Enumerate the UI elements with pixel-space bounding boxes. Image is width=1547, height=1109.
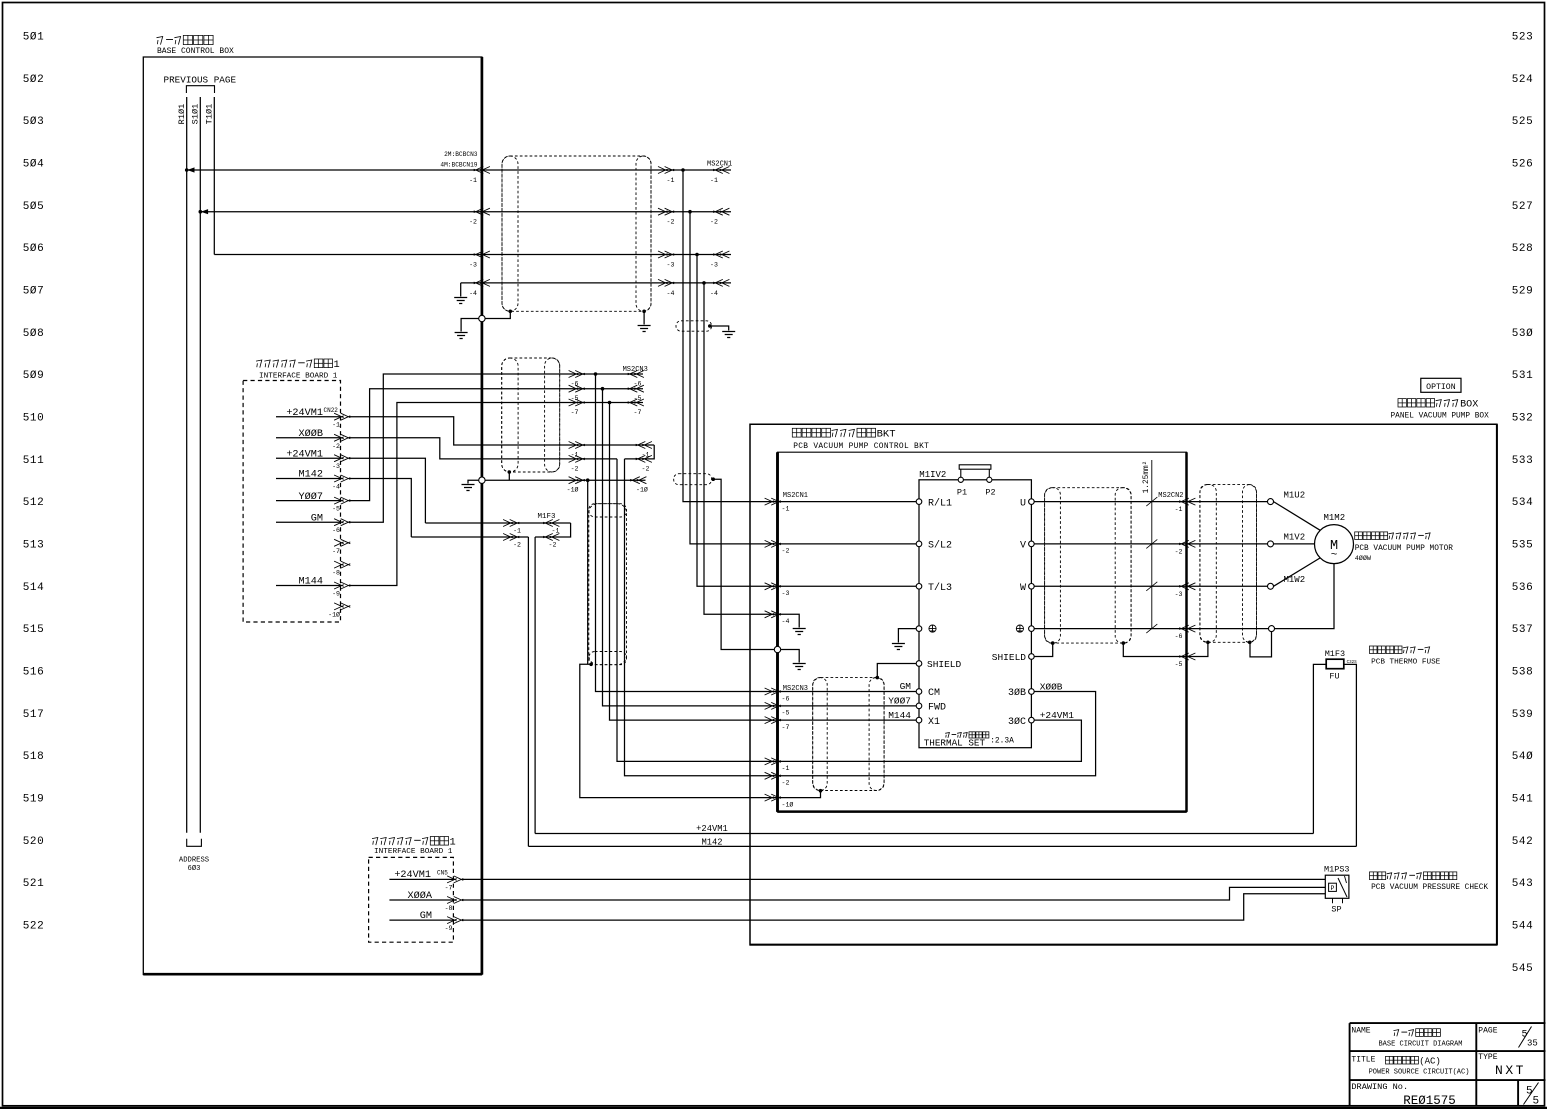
svg-text:T1Ø1: T1Ø1 (205, 104, 215, 125)
wire FWD row with label Y007 (778, 705, 917, 707)
svg-text:FWD: FWD (928, 703, 946, 714)
svg-text:-1: -1 (782, 765, 790, 772)
svg-text:529: 529 (1512, 285, 1534, 297)
svg-text:525: 525 (1512, 116, 1534, 128)
svg-text:BOX: BOX (1460, 400, 1478, 411)
wire V to MS2CN2-2 (1034, 543, 1186, 545)
svg-text:YØØ7: YØØ7 (299, 491, 323, 503)
svg-text:M142: M142 (701, 837, 722, 847)
svg-text:M1PS3: M1PS3 (1324, 865, 1350, 875)
svg-text:M1IV2: M1IV2 (919, 470, 946, 480)
svg-text:+24VM1: +24VM1 (1040, 710, 1075, 721)
svg-text:THERMAL SET: THERMAL SET (924, 738, 986, 749)
svg-text:-1Ø: -1Ø (636, 486, 648, 494)
wire 30C +24VM1 to MS2CN3-1 (778, 720, 1082, 761)
svg-text:-4: -4 (710, 290, 718, 297)
connector CN22 pin -3 +24VM1 (276, 457, 341, 459)
inverter pin 30B (1029, 689, 1035, 695)
svg-text:-3: -3 (1175, 591, 1183, 598)
svg-text:S/L2: S/L2 (928, 540, 952, 552)
svg-text:TITLE: TITLE (1351, 1056, 1375, 1065)
svg-text:-2: -2 (571, 465, 579, 472)
label PCB VACUUM PUMP CONTROL BKT (Japanese) (792, 428, 801, 437)
svg-text:518: 518 (23, 751, 45, 763)
wire CM row with label GM (778, 691, 917, 693)
ground G8 (892, 644, 905, 650)
wire MS2CN1-3 to inverter T/L3 (778, 585, 917, 587)
connector arrows cable out pins -1..-4 (658, 167, 674, 174)
wire bundle v4 to control bkt MS2CN3-1 (617, 459, 778, 762)
label PCB VACUUM PUMP MOTOR (Japanese) (1355, 532, 1363, 540)
ground G1 on row -4 (460, 283, 462, 297)
svg-text:~: ~ (1331, 550, 1338, 562)
bracket ADDRESS 603 (187, 839, 202, 847)
wire X1 row with label M144 (778, 719, 917, 721)
svg-text:528: 528 (1512, 243, 1534, 255)
svg-text:PCB THERMO FUSE: PCB THERMO FUSE (1371, 659, 1441, 667)
svg-text:4ØØW: 4ØØW (1355, 554, 1372, 563)
wire MS2CN1-4 to ground G6 (778, 614, 800, 627)
inverter pin earth left (916, 626, 922, 632)
svg-text:-1: -1 (571, 452, 579, 459)
svg-text:-2: -2 (642, 465, 650, 472)
svg-text:-2: -2 (513, 542, 521, 549)
wire W to MS2CN2-3 (1034, 585, 1186, 587)
svg-text:510: 510 (23, 412, 45, 424)
svg-text:M1M2: M1M2 (1324, 513, 1346, 523)
pressure switch legs and SP label (1332, 898, 1334, 903)
jumper P1-P2 (961, 469, 990, 480)
ground G2 (455, 333, 468, 339)
svg-text:M144: M144 (888, 710, 911, 721)
svg-text:-1Ø: -1Ø (328, 610, 340, 618)
connector CN22 pin -1 +24VM1 (276, 416, 341, 418)
shield dot inner cable right (1122, 641, 1126, 645)
svg-text:P: P (1331, 885, 1335, 892)
connector CN22 pin -9 M144 (276, 585, 341, 587)
svg-text:-8: -8 (332, 570, 340, 577)
wire CN22-5 to MS2CN3 row -5 (349, 389, 643, 501)
svg-text:-8: -8 (445, 905, 453, 912)
connector CN22 pin -6 GM (276, 521, 341, 523)
shield dot bundle cable (589, 663, 593, 667)
wire bundle v2 Y007 to control bkt FWD (603, 389, 778, 706)
svg-text:CM: CM (928, 688, 940, 699)
wire bundle v5 to control bkt MS2CN3-2 (625, 459, 778, 776)
label PANEL VACUUM PUMP BOX (Japanese) (1398, 399, 1406, 408)
svg-text:536: 536 (1512, 582, 1534, 594)
wire terminal to ground G2 (461, 319, 479, 332)
motor M1M2 circle (1315, 525, 1354, 564)
wire CN22-3 to M1F3 row -1 (349, 458, 425, 523)
connector CN5 pin -7 +24VM1 (389, 878, 455, 880)
svg-text:X1: X1 (928, 717, 940, 728)
svg-text:514: 514 (23, 582, 45, 594)
wire bus vertical 3 to MS2CN1-3 of control bkt (697, 255, 778, 587)
shield dot inner cable left (1051, 641, 1055, 645)
svg-text:-3: -3 (469, 262, 477, 269)
svg-text:-1Ø: -1Ø (567, 486, 579, 494)
shield dot motor cable left (1206, 641, 1210, 645)
svg-text:-1: -1 (667, 177, 675, 184)
wire shield drain to control bkt MS2CN3-10 (580, 664, 778, 797)
wire MS2CN1-2 to inverter S/L2 (778, 543, 917, 545)
svg-text:-2: -2 (782, 780, 790, 787)
svg-text:5Ø3: 5Ø3 (23, 116, 45, 128)
wire motor frame to cable shield (1250, 632, 1272, 657)
wire earth right to MS2CN2-6 (1034, 628, 1186, 630)
cable shield dashed pair near base box edge (502, 358, 560, 472)
svg-text:YØØ7: YØØ7 (888, 696, 911, 707)
wire bus vertical 1 to MS2CN1-1 of control bkt (683, 170, 778, 502)
cable shield sleeve on bus lower (674, 474, 712, 485)
svg-text:FU: FU (1329, 672, 1339, 682)
svg-text:-6: -6 (332, 527, 340, 534)
junction dots MS2CN3 bundle (594, 372, 598, 376)
svg-text:U: U (1020, 498, 1026, 509)
svg-text:CN5: CN5 (437, 870, 448, 877)
svg-text:-7: -7 (782, 724, 790, 731)
svg-text:PREVIOUS PAGE: PREVIOUS PAGE (164, 74, 237, 85)
shield dot top (876, 676, 880, 680)
svg-text:P2: P2 (985, 488, 995, 498)
svg-text:5Ø2: 5Ø2 (23, 74, 45, 86)
wire jumper MS2CN3 -1 to -2 (625, 445, 655, 459)
svg-text:M1W2: M1W2 (1284, 575, 1306, 585)
svg-text:-2: -2 (332, 443, 340, 450)
svg-text:-7: -7 (634, 409, 642, 416)
wire MS2CN2-3 to M1W2 terminal (1187, 585, 1268, 587)
title block frame (1350, 1023, 1546, 1106)
svg-text:XØØB: XØØB (299, 428, 323, 440)
wire drain to ground G3 (643, 311, 645, 324)
wire SHIELD right to inner cable shield (1034, 643, 1053, 656)
svg-text:+24VM1: +24VM1 (286, 449, 323, 460)
inverter pin X1 (916, 717, 922, 723)
svg-text:515: 515 (23, 624, 45, 636)
wire MS2CN2-6 to motor frame terminal (1187, 628, 1269, 630)
junction S101 row -2 with arrowhead (199, 210, 203, 214)
wire row -10 to shield dot (778, 791, 821, 798)
inverter pin SHIELD left (916, 661, 922, 667)
wire CN22-9 to MS2CN3 row -7 (349, 403, 643, 586)
svg-text:5Ø7: 5Ø7 (23, 285, 45, 297)
wire +24VM1 drop vertical (534, 537, 536, 834)
svg-text:TYPE: TYPE (1478, 1053, 1497, 1062)
wire row -10 to MS2CN3 (485, 479, 645, 481)
svg-text:-4: -4 (332, 484, 340, 491)
svg-text:2M:BCBCN3: 2M:BCBCN3 (444, 151, 478, 158)
inverter pin earth right (1029, 626, 1035, 632)
svg-text:P1: P1 (957, 488, 967, 498)
svg-text:-3: -3 (332, 463, 340, 470)
wire R101 vertical (186, 97, 188, 833)
svg-text:-2: -2 (667, 219, 675, 226)
ground G6 (793, 629, 806, 635)
svg-text:NAME: NAME (1351, 1027, 1370, 1036)
wire sleeve shield to control bkt terminal circle (713, 479, 774, 649)
inverter pin 30C (1029, 717, 1035, 723)
svg-text:5Ø1: 5Ø1 (23, 32, 45, 44)
svg-text:-2: -2 (1175, 548, 1183, 555)
terminal circle on base box edge row 508 (479, 315, 485, 321)
svg-text:(AC): (AC) (1419, 1056, 1441, 1067)
wire shield drain to terminal circle (485, 311, 510, 318)
svg-text:544: 544 (1512, 920, 1534, 932)
shield drain dot left tube (509, 310, 513, 314)
board INTERFACE BOARD 1 upper dashed box (243, 381, 340, 623)
svg-text:537: 537 (1512, 624, 1534, 636)
wire CN22-1 to MS2CN3 row -1 (349, 417, 654, 445)
wire M1U2 to motor (1274, 502, 1321, 531)
svg-text:5Ø5: 5Ø5 (23, 201, 45, 213)
wire MS2CN1-1 to inverter R/L1 (778, 501, 917, 503)
terminal circle control bkt left edge (774, 646, 780, 652)
label OPTION box (1421, 378, 1461, 392)
ground G3 (638, 326, 651, 332)
svg-text:-9: -9 (445, 925, 453, 932)
svg-text:SHIELD: SHIELD (927, 659, 962, 670)
svg-text:+24VM1: +24VM1 (696, 824, 728, 834)
box PCB VACUUM PUMP CONTROL BKT (778, 452, 1187, 812)
svg-text:POWER SOURCE CIRCUIT(AC): POWER SOURCE CIRCUIT(AC) (1369, 1068, 1470, 1076)
connector MS2CN1 pins -1..-4 (713, 167, 729, 174)
box BASE CONTROL BOX (143, 57, 482, 975)
inverter pin SHIELD right (1029, 654, 1035, 660)
svg-text:-4: -4 (667, 290, 675, 297)
svg-text:520: 520 (23, 836, 45, 848)
svg-text:PCB VACUUM PUMP CONTROL BKT: PCB VACUUM PUMP CONTROL BKT (793, 442, 929, 451)
svg-text:-7: -7 (332, 548, 340, 555)
label INTERFACE BOARD 1 lower (Japanese) (372, 838, 378, 846)
svg-text:1: 1 (334, 359, 340, 371)
svg-text:SP: SP (1331, 905, 1341, 915)
inverter M1IV2 box (919, 480, 1031, 748)
wire bundle v3 M144 to control bkt X1 (610, 403, 778, 721)
pressure switch symbol (1329, 883, 1337, 891)
inverter pin W (1029, 584, 1035, 590)
svg-text:545: 545 (1512, 963, 1534, 975)
wire frame terminal to motor bottom (1275, 564, 1335, 629)
svg-text:T/L3: T/L3 (928, 582, 952, 594)
svg-text:523: 523 (1512, 32, 1534, 44)
svg-text:-2: -2 (782, 548, 790, 555)
wire motor cable shield to MS2CN2-5 (1187, 642, 1208, 656)
svg-text:-5: -5 (571, 395, 579, 402)
svg-text:-1: -1 (332, 422, 340, 429)
wire M1F3 jumper right (535, 523, 571, 537)
svg-text:MS2CN3: MS2CN3 (623, 366, 648, 374)
bracket previous page feeds (186, 86, 214, 93)
svg-text:BKT: BKT (877, 429, 896, 441)
svg-text:-1: -1 (513, 528, 521, 535)
inverter pin R/L1 (916, 499, 922, 505)
connector BCBCN pins -1..-4 at base box edge (474, 167, 490, 174)
svg-text:PANEL VACUUM PUMP BOX: PANEL VACUUM PUMP BOX (1391, 412, 1490, 420)
cable shield sleeve on bus upper (676, 321, 712, 331)
box PANEL VACUUM PUMP BOX (750, 424, 1497, 945)
svg-text:-1Ø: -1Ø (782, 800, 794, 808)
svg-text:3ØB: 3ØB (1008, 687, 1026, 699)
svg-text:524: 524 (1512, 74, 1534, 86)
svg-text:-7: -7 (571, 409, 579, 416)
svg-text:DRAWING No.: DRAWING No. (1351, 1082, 1408, 1092)
cable shield BCBCN19 dashed (502, 156, 651, 311)
svg-text:534: 534 (1512, 497, 1534, 509)
label INTERFACE BOARD 1 upper (Japanese) (256, 360, 262, 368)
inverter pin V (1029, 541, 1035, 547)
inverter pin CM (916, 689, 922, 695)
wire bundle v1 GM to control bkt CM (596, 374, 778, 692)
wire S101 vertical (199, 97, 201, 833)
connector CN22 pin -7 unused (334, 539, 350, 546)
shield dot bottom (819, 789, 823, 793)
svg-text:-7: -7 (445, 884, 453, 891)
svg-text:542: 542 (1512, 836, 1534, 848)
wire bundle v0 row -10 shield (587, 480, 589, 664)
svg-text:OPTION: OPTION (1426, 383, 1456, 392)
svg-text:PCB VACUUM PUMP MOTOR: PCB VACUUM PUMP MOTOR (1355, 545, 1454, 553)
svg-text:XØØA: XØØA (408, 890, 433, 902)
svg-text:-1: -1 (710, 177, 718, 184)
svg-text:543: 543 (1512, 878, 1534, 890)
svg-text:-3: -3 (710, 262, 718, 269)
svg-text:GM: GM (311, 513, 323, 524)
svg-text:-5: -5 (332, 506, 340, 513)
ground G7 (793, 664, 806, 670)
svg-text:513: 513 (23, 539, 45, 551)
svg-text:+24VM1: +24VM1 (286, 408, 323, 419)
shield drain dot right tube (642, 310, 646, 314)
terminal motor frame (1269, 626, 1275, 632)
wire inner shield to MS2CN2-5 (1123, 643, 1186, 656)
wire T101 vertical (213, 97, 215, 255)
wire U to MS2CN2-1 (1034, 501, 1186, 503)
wire bus vertical 4 to MS2CN1-4 of control bkt (704, 283, 778, 614)
connector CN22 pin -4 M142 (276, 478, 341, 480)
wire CN5-8 to M1PS3 pin2 (462, 887, 1325, 900)
cable shield inside control bkt to MS2CN2 (1045, 488, 1132, 643)
svg-text:535: 535 (1512, 539, 1534, 551)
svg-text:-2: -2 (469, 219, 477, 226)
svg-text:GM: GM (900, 681, 912, 692)
svg-text:BASE CIRCUIT DIAGRAM: BASE CIRCUIT DIAGRAM (1378, 1041, 1462, 1049)
terminal M1U2 (1268, 499, 1274, 505)
svg-text:R/L1: R/L1 (928, 497, 952, 509)
inverter pin FWD (916, 703, 922, 709)
junction row -10 bundle (586, 478, 590, 482)
svg-text:-6: -6 (782, 695, 790, 702)
svg-text:CN22: CN22 (324, 407, 339, 414)
connector CN22 pin -5 Y007 (276, 500, 341, 502)
svg-text:MS2CN1: MS2CN1 (783, 492, 808, 500)
svg-text:532: 532 (1512, 412, 1534, 424)
wire terminal to ground G5 (468, 480, 479, 483)
terminal circle base box edge row -10 (479, 477, 485, 483)
svg-text:541: 541 (1512, 793, 1534, 805)
terminal M1W2 (1268, 583, 1274, 589)
svg-text:M144: M144 (299, 577, 323, 588)
wire fuse right to M142 line (1344, 664, 1357, 846)
junction dots bus verticals rows -1..-4 (681, 168, 685, 172)
svg-text:517: 517 (23, 709, 45, 721)
svg-text:-1: -1 (782, 505, 790, 512)
inverter pin U (1029, 499, 1035, 505)
connector CN22 pin -10 unused (334, 603, 350, 610)
pressure switch M1PS3 box (1325, 875, 1349, 898)
connector CN5 pin -8 X00A (389, 899, 455, 901)
wire left SHIELD pin to cable shield (877, 664, 916, 678)
cable shield MS2CN3 inside control bkt (813, 678, 884, 791)
ground G4 (722, 332, 735, 338)
svg-text:5Ø8: 5Ø8 (23, 328, 45, 340)
wire CN22-2 to MS2CN3 row -2 (349, 438, 617, 459)
svg-text:M1F3: M1F3 (1325, 649, 1345, 659)
svg-text:-2: -2 (710, 219, 718, 226)
svg-text:M1F3: M1F3 (537, 513, 556, 521)
svg-text:MS2CN2: MS2CN2 (1158, 492, 1183, 500)
svg-text:539: 539 (1512, 709, 1534, 721)
wire CN5-7 to M1PS3 pin1 (462, 878, 1325, 880)
wire +24VM1 long line row 520 (535, 833, 1313, 835)
wire MS2CN2-1 to M1U2 terminal (1187, 501, 1268, 503)
connector CN5 pin -9 GM (389, 919, 455, 921)
fuse M1F3 body (1326, 659, 1344, 669)
shield dot upper sleeve (708, 324, 712, 328)
wire sleeve shield to ground G4 (710, 326, 729, 331)
svg-text:V: V (1020, 541, 1026, 552)
callout 1.25mm2 wire gauge (1151, 460, 1153, 629)
inverter pin S/L2 (916, 541, 922, 547)
wire CN22-4 to M1F3 row -2 (349, 479, 411, 538)
svg-text:531: 531 (1512, 370, 1534, 382)
svg-text:GM: GM (420, 911, 432, 922)
svg-text:-5: -5 (1175, 661, 1183, 668)
svg-text:-4: -4 (782, 618, 790, 625)
svg-text:3ØC: 3ØC (1008, 716, 1026, 728)
connector CN22 pin -2 X00B (276, 437, 341, 439)
svg-text:522: 522 (23, 920, 45, 932)
svg-text:54Ø: 54Ø (1512, 751, 1534, 763)
svg-text:-6: -6 (1175, 633, 1183, 640)
wire M1W2 to motor (1274, 558, 1321, 586)
wire terminal to ground G7 (781, 650, 800, 663)
wire MS2CN2-2 to M1V2 terminal (1187, 543, 1268, 545)
svg-text:BASE CONTROL BOX: BASE CONTROL BOX (157, 47, 234, 56)
wire CN5-9 to M1PS3 pin3 (462, 894, 1325, 920)
label THERMAL SET (Japanese) (945, 733, 949, 738)
wire earth pin to ground G8 (898, 629, 916, 643)
svg-text:5Ø6: 5Ø6 (23, 243, 45, 255)
svg-text:INTERFACE BOARD 1: INTERFACE BOARD 1 (374, 848, 453, 856)
svg-text:521: 521 (23, 878, 45, 890)
svg-text:SHIELD: SHIELD (992, 652, 1027, 663)
wire CN22-6 to MS2CN3 row -6 (349, 374, 643, 522)
wire bus vertical 2 to MS2CN1-2 of control bkt (690, 212, 778, 544)
svg-text:S1Ø1: S1Ø1 (191, 104, 201, 125)
wire row -3 T101 to connector (214, 254, 731, 256)
svg-text::2.3A: :2.3A (990, 737, 1014, 746)
wire shield stub to row -10 (508, 472, 510, 480)
svg-text:5Ø4: 5Ø4 (23, 158, 45, 170)
wire 30B X00B to MS2CN3-2 (778, 692, 1096, 776)
svg-text:527: 527 (1512, 201, 1534, 213)
svg-text:XØØB: XØØB (1040, 681, 1063, 692)
wire row -2 S101 to connector (200, 211, 731, 213)
svg-text:-2: -2 (549, 542, 557, 549)
svg-text:NXT: NXT (1495, 1063, 1526, 1078)
svg-text:1.25mm²: 1.25mm² (1142, 461, 1151, 494)
